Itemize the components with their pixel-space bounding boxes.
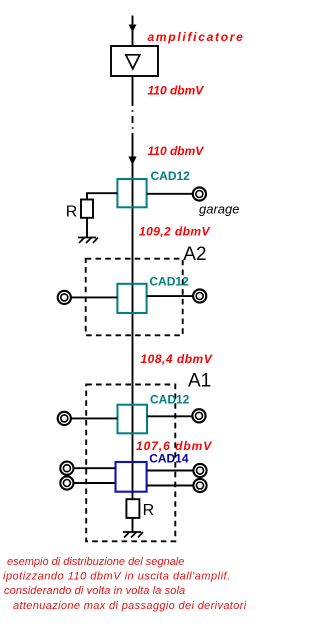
svg-text:CAD12: CAD12 xyxy=(150,392,190,406)
svg-text:108,4 dbmV: 108,4 dbmV xyxy=(141,352,213,366)
wire: A1 tap right outlet xyxy=(147,415,193,417)
svg-text:attenuazione max di passaggio: attenuazione max di passaggio dei deriva… xyxy=(13,600,247,612)
dashed enclosure A2 xyxy=(86,259,183,336)
wire: CAD14 left outlet top xyxy=(74,467,116,469)
svg-text:CAD12: CAD12 xyxy=(149,274,189,288)
connector: A2 right outlet xyxy=(193,289,206,302)
svg-text:110 dbmV: 110 dbmV xyxy=(148,144,205,158)
ground (chassis earth, CAD14) xyxy=(123,532,143,538)
svg-text:CAD14: CAD14 xyxy=(149,451,189,465)
svg-text:amplificatore: amplificatore xyxy=(148,30,245,44)
connector: A1 left outlet bottom xyxy=(60,476,73,489)
connector: garage wall outlet xyxy=(193,187,206,200)
svg-text:110 dbmV: 110 dbmV xyxy=(148,84,205,98)
svg-text:CAD12: CAD12 xyxy=(151,169,191,183)
wire: CAD14 left outlet bottom xyxy=(74,482,116,484)
connector: A2 left outlet xyxy=(58,291,71,304)
resistor R (termination, garage tap) xyxy=(81,200,93,218)
wire: dash-dot trunk cable (omitted length) xyxy=(132,99,134,133)
amplifier triangle symbol xyxy=(126,55,140,69)
connector: A1 left outlet xyxy=(58,412,71,425)
svg-text:garage: garage xyxy=(199,202,239,217)
tap CAD12 (A1) box xyxy=(118,405,148,434)
svg-text:A1: A1 xyxy=(188,370,211,391)
connector: A1 right outlet xyxy=(192,409,205,422)
svg-text:A2: A2 xyxy=(183,244,206,265)
wire: tap1 to terminating resistor xyxy=(87,193,117,199)
wire: A2 tap left outlet xyxy=(71,296,117,298)
tap CAD12 (A2) box xyxy=(117,284,146,313)
svg-text:ipotizzando 110 dbmV in uscita: ipotizzando 110 dbmV in uscita dall'ampl… xyxy=(3,571,231,583)
dashed enclosure A1 xyxy=(86,385,175,542)
amplifier U1 box xyxy=(111,46,158,76)
svg-text:considerando di volta in volta: considerando di volta in volta la sola xyxy=(4,585,185,597)
wire: amplifier output xyxy=(132,76,134,99)
wire: trunk line down through taps xyxy=(132,133,134,499)
tap CAD12 (garage) box xyxy=(117,179,146,207)
distributor CAD14 box xyxy=(116,462,147,492)
wire: resistor to ground xyxy=(132,518,134,532)
resistor R (termination, CAD14 through port) xyxy=(126,499,139,518)
wire: CAD14 right outlet top xyxy=(147,470,194,472)
svg-text:R: R xyxy=(143,502,155,519)
connector: A1 left outlet top xyxy=(60,462,73,475)
wire: CAD14 right outlet bottom xyxy=(147,485,194,487)
arrowhead: signal direction into amplifier xyxy=(129,25,137,33)
svg-text:R: R xyxy=(66,203,78,220)
svg-text:esempio di distribuzione del s: esempio di distribuzione del segnale xyxy=(7,556,184,568)
ground (chassis earth, garage tap) xyxy=(78,238,98,244)
wire: A1 tap left outlet xyxy=(71,417,117,419)
wire: A2 tap right outlet xyxy=(147,295,193,297)
wire: input feed from antenna xyxy=(132,16,134,47)
connector: A1 right outlet bottom xyxy=(193,479,206,492)
arrowhead: signal direction into first tap xyxy=(128,157,136,166)
wire: tap1 output to garage outlet xyxy=(147,193,193,195)
svg-text:109,2 dbmV: 109,2 dbmV xyxy=(139,224,210,238)
wire: resistor to ground xyxy=(86,218,88,238)
connector: A1 right outlet top xyxy=(193,464,206,477)
